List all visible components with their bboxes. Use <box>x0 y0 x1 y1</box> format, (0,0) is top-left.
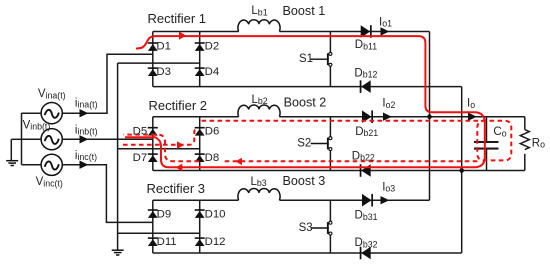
svg-text:Boost 3: Boost 3 <box>283 174 326 188</box>
svg-text:Io2: Io2 <box>382 98 395 110</box>
svg-text:Lb3: Lb3 <box>251 176 267 188</box>
svg-text:Db32: Db32 <box>355 237 378 249</box>
svg-text:Db31: Db31 <box>355 210 378 222</box>
svg-text:D5: D5 <box>133 126 148 138</box>
svg-text:Rectifier 3: Rectifier 3 <box>147 181 206 196</box>
svg-text:S3: S3 <box>299 222 313 234</box>
svg-text:Db11: Db11 <box>355 39 377 51</box>
svg-text:D11: D11 <box>157 236 177 248</box>
svg-text:S2: S2 <box>297 138 311 150</box>
svg-text:Lb1: Lb1 <box>251 5 267 17</box>
svg-text:D10: D10 <box>205 208 226 220</box>
svg-text:Io: Io <box>467 98 475 110</box>
svg-text:iinb(t): iinb(t) <box>75 124 98 136</box>
svg-text:Vina(t): Vina(t) <box>38 88 66 100</box>
svg-text:Io1: Io1 <box>379 16 392 28</box>
svg-text:Boost 1: Boost 1 <box>283 4 326 18</box>
svg-text:Boost 2: Boost 2 <box>284 95 327 109</box>
svg-text:D8: D8 <box>205 152 220 164</box>
svg-text:D2: D2 <box>205 41 220 53</box>
svg-text:Lb2: Lb2 <box>252 94 268 106</box>
svg-text:Io3: Io3 <box>382 181 395 193</box>
svg-text:D12: D12 <box>205 236 226 248</box>
svg-text:Db12: Db12 <box>354 67 377 79</box>
svg-text:iinc(t): iinc(t) <box>75 150 97 162</box>
svg-text:D6: D6 <box>205 126 220 138</box>
svg-text:iina(t): iina(t) <box>75 97 98 109</box>
svg-text:Co: Co <box>493 126 506 138</box>
svg-text:Rectifier 1: Rectifier 1 <box>148 11 207 26</box>
svg-text:D3: D3 <box>156 66 171 78</box>
svg-text:Vinb(t): Vinb(t) <box>23 119 51 131</box>
svg-text:Ro: Ro <box>532 137 545 149</box>
svg-text:D9: D9 <box>157 208 172 220</box>
svg-text:Db21: Db21 <box>355 126 378 138</box>
svg-text:Db22: Db22 <box>352 150 375 162</box>
svg-text:S1: S1 <box>299 53 313 65</box>
svg-text:D1: D1 <box>156 41 171 53</box>
svg-text:Vinc(t): Vinc(t) <box>36 176 63 188</box>
svg-text:D4: D4 <box>205 66 220 78</box>
svg-text:D7: D7 <box>133 152 148 164</box>
svg-text:Rectifier 2: Rectifier 2 <box>149 98 208 113</box>
